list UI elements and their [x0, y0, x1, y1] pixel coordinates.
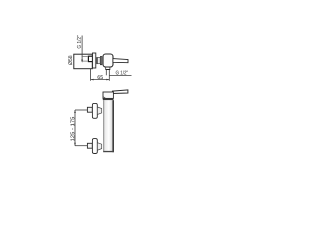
- dimension 125-175 extension line bottom: [75, 145, 87, 147]
- upper wall union escutcheon (front view): [92, 103, 97, 118]
- dimension text 125 - 175: [70, 117, 74, 141]
- outlet pipe lines (plan view): [106, 70, 109, 81]
- inlet port square (plan view): [88, 56, 92, 61]
- leader line for G 1/2 top label: [81, 36, 83, 63]
- cap ring band (front view): [103, 98, 114, 100]
- upper wall union nut (front view): [87, 107, 92, 112]
- bonnet cap (front view): [103, 92, 113, 98]
- lower union cone (front view): [97, 143, 101, 151]
- dimension 65 extension line left: [90, 69, 92, 81]
- dimension 65 line with arrows: [91, 79, 110, 81]
- mixer body cylinder (front view): [103, 100, 114, 152]
- dimension 125-175 line with arrows: [74, 110, 76, 146]
- lower wall union escutcheon (front view): [92, 139, 97, 154]
- label Ø58 (body diameter): [68, 56, 72, 65]
- dimension text 65: [98, 75, 103, 79]
- upper union cone (front view): [97, 107, 101, 115]
- valve cartridge housing (plan view): [103, 54, 113, 67]
- dimension 125-175 extension line top: [75, 109, 87, 111]
- locknut bar (plan view): [100, 57, 101, 65]
- handle lever (plan view): [113, 59, 128, 63]
- label G 1/2 bottom (outlet thread): [116, 70, 128, 74]
- leader line under G 1/2 bottom label: [109, 75, 131, 77]
- label G 1/2 top (plan view inlet): [77, 35, 81, 48]
- handle lever (front view): [112, 90, 128, 94]
- mounting flange (plan view): [93, 53, 96, 68]
- lower wall union nut (front view): [87, 143, 92, 148]
- inlet channel lines (plan view): [82, 57, 88, 62]
- mixer body (plan view): [74, 54, 93, 68]
- outlet stub (plan view): [105, 67, 110, 70]
- connector cone (plan view): [97, 58, 101, 64]
